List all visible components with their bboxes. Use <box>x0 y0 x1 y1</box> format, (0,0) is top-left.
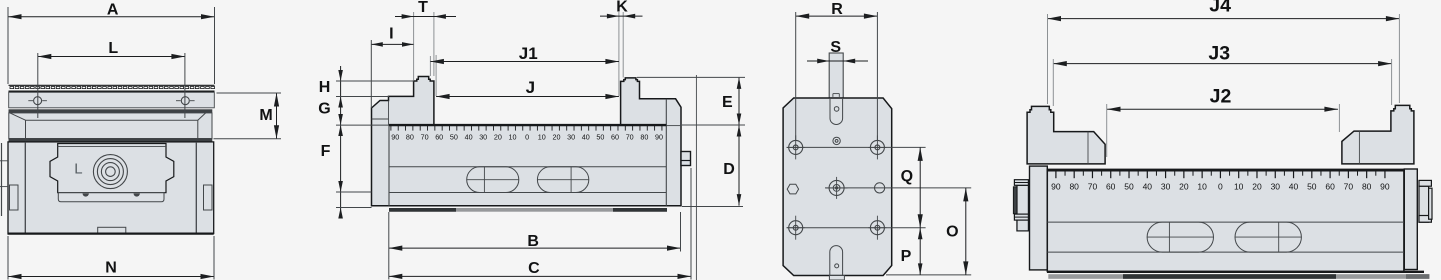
svg-text:50: 50 <box>1307 182 1317 192</box>
dimension C (overall length) <box>389 260 691 279</box>
rear body main slab <box>1047 169 1404 271</box>
reference lines across plate <box>787 147 972 275</box>
slot obround right front view <box>537 167 588 193</box>
dimension A (overall width, plan view) <box>8 2 215 20</box>
svg-text:O: O <box>946 224 958 241</box>
svg-text:60: 60 <box>611 132 619 141</box>
svg-text:90: 90 <box>1051 182 1061 192</box>
svg-text:90: 90 <box>655 132 663 141</box>
svg-text:20: 20 <box>494 132 502 141</box>
slide plate bottom lip <box>58 193 164 202</box>
dimension J (jaw opening) <box>436 78 619 99</box>
extension line J left <box>435 55 437 96</box>
internal edge lines front body <box>372 99 682 206</box>
svg-text:10: 10 <box>509 132 517 141</box>
svg-text:80: 80 <box>1069 182 1079 192</box>
fixed jaw body band with chamfers (plan view) <box>9 113 212 139</box>
bolt hole bottom-left <box>787 216 805 240</box>
dimension J4 (max opening) <box>1048 0 1400 21</box>
dimension M (jaw height, right side) <box>259 93 279 139</box>
bolt hole top-right <box>868 135 886 159</box>
svg-text:J1: J1 <box>519 44 538 63</box>
svg-text:10: 10 <box>1197 182 1207 192</box>
svg-text:20: 20 <box>553 132 561 141</box>
svg-text:70: 70 <box>626 132 634 141</box>
left dimension stack line <box>340 66 342 214</box>
hex socket left <box>787 184 798 194</box>
svg-text:30: 30 <box>479 132 487 141</box>
svg-text:T: T <box>418 0 428 16</box>
lip screw bump left <box>83 193 89 196</box>
svg-text:J4: J4 <box>1209 0 1231 17</box>
extension lines for M <box>214 93 282 139</box>
body bottom edge <box>8 233 214 235</box>
dimension D (bed height) <box>723 125 741 206</box>
svg-text:40: 40 <box>1289 182 1299 192</box>
arrowheads H G F stack <box>338 70 343 219</box>
svg-text:H: H <box>319 79 331 96</box>
dimension O <box>946 188 968 275</box>
rear body right end cap <box>1404 169 1417 270</box>
serrated jaw plate strip (plan view) <box>9 85 215 92</box>
svg-text:G: G <box>318 100 330 117</box>
svg-text:D: D <box>723 161 735 178</box>
mounting hole right (crosshair) <box>176 97 195 105</box>
svg-text:50: 50 <box>450 132 458 141</box>
rear body left end cap <box>1030 166 1048 270</box>
extension lines R <box>796 12 878 140</box>
rear body right knob (spindle end) <box>1419 180 1432 222</box>
plain hole right <box>875 183 885 193</box>
right side slot <box>204 185 213 210</box>
svg-text:F: F <box>321 143 331 160</box>
svg-text:L: L <box>108 40 118 57</box>
svg-text:50: 50 <box>1124 182 1134 192</box>
svg-text:80: 80 <box>1362 182 1372 192</box>
dimension L (jaw plate hole spacing) <box>38 40 185 59</box>
spindle end protrusion <box>681 152 691 166</box>
bottom tongue tab <box>829 276 844 280</box>
extension lines for L (through hole centers) <box>38 53 185 118</box>
cut-off element at image left edge <box>0 143 8 216</box>
extension lines E and D <box>637 77 745 206</box>
front view body silhouette <box>372 77 682 206</box>
svg-text:80: 80 <box>640 132 648 141</box>
svg-text:40: 40 <box>465 132 473 141</box>
tongue slot keyhole top <box>830 98 843 125</box>
svg-text:50: 50 <box>596 132 604 141</box>
svg-text:10: 10 <box>538 132 546 141</box>
svg-text:A: A <box>107 2 119 19</box>
extension lines J4 J3 J2 <box>1048 14 1400 157</box>
svg-text:J: J <box>526 78 535 97</box>
svg-text:10: 10 <box>1234 182 1244 192</box>
svg-text:S: S <box>830 39 841 56</box>
dimension J2 <box>1107 86 1338 112</box>
svg-text:30: 30 <box>567 132 575 141</box>
left reversed jaw assembly rear view <box>1027 106 1105 163</box>
body horizontal lines front view <box>389 167 666 193</box>
extension line J1 left <box>429 56 431 76</box>
svg-text:I: I <box>389 25 393 42</box>
dimension B (body length) <box>389 233 681 251</box>
svg-text:P: P <box>901 248 912 265</box>
svg-text:30: 30 <box>1161 182 1171 192</box>
svg-text:80: 80 <box>406 132 414 141</box>
stray table rule line right of front view <box>695 75 697 280</box>
dimension J3 <box>1053 42 1391 66</box>
svg-text:J2: J2 <box>1210 86 1232 108</box>
svg-text:N: N <box>105 259 117 276</box>
extension lines for N <box>8 236 214 280</box>
end plate octagon body <box>783 98 892 276</box>
svg-text:E: E <box>722 94 733 111</box>
right reversed jaw assembly rear view <box>1342 105 1414 163</box>
dimension P <box>901 228 923 275</box>
svg-text:0: 0 <box>525 132 529 141</box>
label H <box>319 79 331 96</box>
dimension I (end block width) <box>371 25 413 46</box>
svg-text:90: 90 <box>1380 182 1390 192</box>
slot obround left front view <box>467 167 519 193</box>
svg-text:M: M <box>259 107 272 124</box>
svg-text:70: 70 <box>421 132 429 141</box>
center hole with crosshair <box>826 177 848 199</box>
dark band 2 <box>9 139 213 142</box>
lip screw bump right <box>134 193 140 196</box>
label F <box>321 143 331 160</box>
vise bed body (plan view) <box>8 142 214 234</box>
svg-text:B: B <box>527 233 539 250</box>
dimension T (jaw width) <box>395 0 456 19</box>
slot obround left rear view <box>1147 222 1213 252</box>
svg-text:60: 60 <box>1325 182 1335 192</box>
scale ruler rear view <box>1047 170 1404 191</box>
svg-text:40: 40 <box>582 132 590 141</box>
svg-text:L: L <box>74 161 82 178</box>
bolt hole bottom-right <box>868 216 886 240</box>
tongue slot keyhole bottom <box>830 246 843 276</box>
mounting hole left (crosshair) <box>28 97 47 105</box>
base strip front view <box>389 208 667 212</box>
svg-text:60: 60 <box>435 132 443 141</box>
extension line T right <box>433 12 435 76</box>
svg-text:60: 60 <box>1106 182 1116 192</box>
svg-text:30: 30 <box>1271 182 1281 192</box>
svg-text:20: 20 <box>1179 182 1189 192</box>
extension line T left <box>413 12 415 80</box>
rear body left knob (spindle end) <box>1013 180 1028 231</box>
letter L marking <box>74 161 82 178</box>
svg-text:R: R <box>831 1 843 18</box>
base strip rear view <box>1048 274 1429 279</box>
svg-text:70: 70 <box>1344 182 1354 192</box>
svg-text:J3: J3 <box>1208 42 1230 64</box>
guide tongue (top) <box>829 53 843 98</box>
extension line I left <box>370 40 372 108</box>
svg-text:40: 40 <box>1143 182 1153 192</box>
jaw plate band with mounting holes <box>9 92 215 108</box>
label G <box>318 100 330 117</box>
body horizontal lines rear view <box>1047 222 1404 252</box>
dimension N (overall width bottom) <box>8 259 214 279</box>
svg-text:20: 20 <box>1252 182 1262 192</box>
dimension Q <box>901 147 923 227</box>
extension lines for A <box>8 7 215 84</box>
slot obround right rear view <box>1235 222 1301 252</box>
svg-text:0: 0 <box>1218 182 1223 192</box>
bottom center tab <box>98 227 126 233</box>
movable jaw slide plate (plan view) <box>50 144 174 193</box>
spindle boss concentric circles <box>93 155 127 189</box>
svg-text:70: 70 <box>1088 182 1098 192</box>
extension line K left / J right <box>618 12 620 96</box>
dimension K (insert width) <box>600 0 643 19</box>
left side slot <box>10 185 19 210</box>
svg-text:C: C <box>528 260 540 277</box>
rear body bottom edge <box>1047 271 1424 273</box>
extension lines B and C <box>389 168 691 280</box>
small concentric hole below tongue <box>833 137 840 144</box>
dimension S (tongue width) <box>807 39 868 64</box>
scale ruler front view <box>389 125 666 141</box>
extension line K right <box>622 12 624 78</box>
svg-text:Q: Q <box>901 168 913 185</box>
dimension E (jaw top to bed) <box>722 77 741 125</box>
svg-text:90: 90 <box>391 132 399 141</box>
dimension R (hole spacing) <box>796 1 878 19</box>
bolt hole top-left <box>787 135 805 159</box>
dark band under jaw plate <box>9 109 213 113</box>
extension lines H G F <box>336 81 414 208</box>
dimension J1 (opening at tongues) <box>430 44 619 64</box>
svg-text:K: K <box>616 0 628 15</box>
